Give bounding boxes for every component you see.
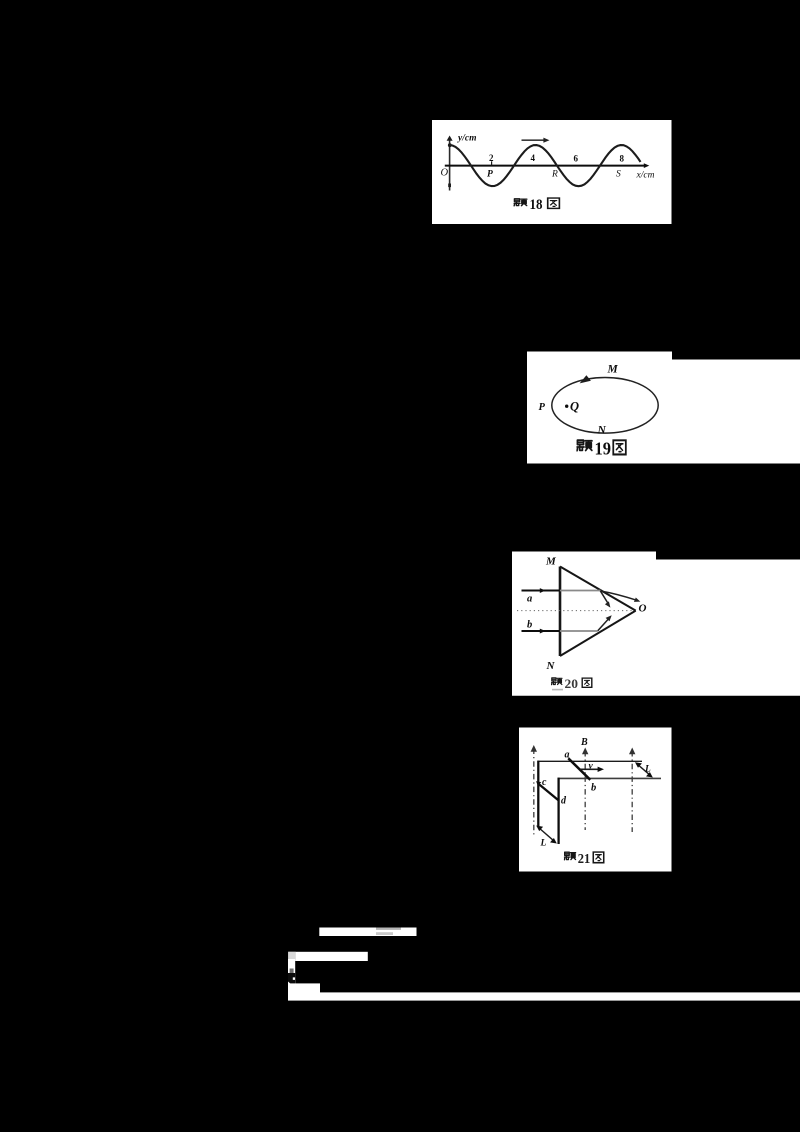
bottom bar C vertical part <box>288 983 320 993</box>
rod cd arrowhead at c end <box>536 781 541 785</box>
charge dot <box>565 405 568 408</box>
second rail horizontal <box>558 777 661 779</box>
figure 18 white panel <box>432 120 672 224</box>
left margin glyph dark blob <box>288 973 295 984</box>
ray b inside prism <box>560 630 598 632</box>
svg-text:19: 19 <box>595 439 612 459</box>
exit ray from a toward O <box>601 591 637 600</box>
svg-text:P: P <box>487 170 493 180</box>
rod ab <box>568 758 590 780</box>
svg-text:21: 21 <box>578 852 591 867</box>
spacing arrow L bottom left <box>539 828 555 842</box>
wave curve <box>450 145 641 186</box>
refracted ray from b (short) <box>598 618 610 631</box>
loop direction arrowhead <box>580 375 591 383</box>
rod cd <box>538 783 560 801</box>
left vertical rail <box>537 761 539 826</box>
refracted ray from a (short) <box>600 591 609 605</box>
svg-text:B: B <box>580 737 588 748</box>
svg-text:4: 4 <box>531 153 536 163</box>
svg-text:N: N <box>546 660 556 672</box>
bottom text-line bar A <box>319 928 416 937</box>
prism face NO <box>560 611 636 656</box>
prism face MO <box>560 567 636 611</box>
svg-text:a: a <box>527 594 532 605</box>
svg-text:S: S <box>616 170 621 180</box>
ellipse loop <box>552 378 658 434</box>
ray b arrowhead <box>540 629 546 634</box>
svg-text:R: R <box>551 170 558 180</box>
bar A grey smudge top <box>376 928 401 930</box>
x-axis <box>445 165 647 167</box>
prism left face MN <box>559 567 562 657</box>
ray b incoming <box>522 630 560 632</box>
bottom text-line bar B <box>288 952 368 961</box>
svg-text:2: 2 <box>489 153 494 163</box>
middle field arrowhead <box>582 748 588 755</box>
svg-text:8: 8 <box>620 154 625 164</box>
svg-text:L: L <box>540 839 547 849</box>
left margin white column <box>288 959 295 984</box>
ray a inside prism <box>560 590 601 592</box>
y-axis tick below origin <box>448 184 451 188</box>
bar A grey smudge bottom <box>376 932 393 935</box>
svg-text:b: b <box>591 783 596 794</box>
velocity arrow v <box>580 768 601 770</box>
figure 19 white panel <box>527 352 800 464</box>
svg-text:a: a <box>565 750 570 761</box>
tick at x=2 <box>491 161 493 165</box>
bar B grey square <box>288 952 296 961</box>
x-axis arrowhead <box>644 163 650 168</box>
right field arrowhead <box>629 748 635 755</box>
left field arrowhead <box>531 745 537 752</box>
svg-text:Q: Q <box>570 400 579 414</box>
svg-text:18: 18 <box>530 197 543 213</box>
svg-text:c: c <box>542 777 547 788</box>
caption 题18图 <box>514 197 559 213</box>
svg-text:b: b <box>527 620 532 631</box>
svg-text:M: M <box>545 556 557 568</box>
top rail <box>538 760 643 762</box>
right field line dash-dot <box>631 751 633 832</box>
svg-text:N: N <box>597 425 607 437</box>
svg-text:x/cm: x/cm <box>636 171 655 181</box>
y-axis arrowhead <box>447 136 453 141</box>
svg-text:L: L <box>644 765 651 775</box>
left margin glyph grey block <box>290 969 294 974</box>
middle field line dash-dot <box>584 751 586 830</box>
optical axis dotted <box>517 610 634 612</box>
svg-text:O: O <box>441 168 449 179</box>
second vertical rail <box>557 778 559 844</box>
figure 21 white panel <box>519 728 672 872</box>
caption 题21图 <box>564 852 603 867</box>
y-axis <box>449 138 451 191</box>
svg-text:P: P <box>539 402 546 413</box>
svg-text:M: M <box>607 364 619 376</box>
caption 题19图 <box>577 439 626 459</box>
svg-text:20: 20 <box>565 677 579 691</box>
spacing arrow L top right <box>637 764 651 776</box>
wave start blob <box>448 143 452 147</box>
svg-text:y/cm: y/cm <box>457 134 476 144</box>
caption 题20图 <box>552 677 592 691</box>
svg-text:O: O <box>639 603 647 615</box>
figure 20 white panel <box>512 552 800 696</box>
left field line dash-dot <box>533 749 535 838</box>
svg-text:6: 6 <box>574 154 579 164</box>
bottom bar C long rule <box>288 992 800 1000</box>
ray a arrowhead <box>540 588 546 593</box>
ray a incoming <box>522 590 560 592</box>
velocity arrow above wave <box>522 139 546 141</box>
